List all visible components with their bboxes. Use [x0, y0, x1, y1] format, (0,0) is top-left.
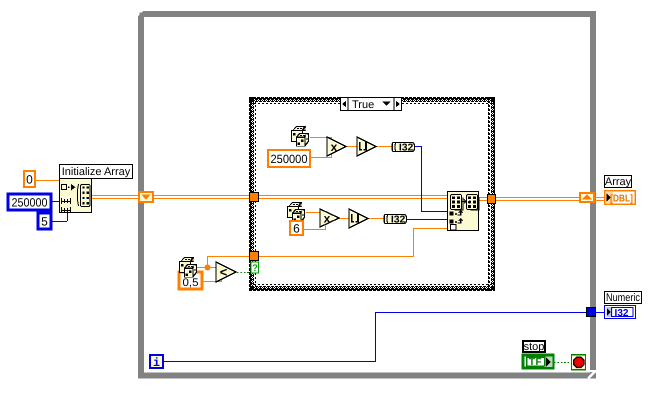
label Array [605, 176, 632, 188]
Array DBL indicator [605, 191, 636, 205]
svg-text:0: 0 [26, 172, 33, 186]
svg-text:Array: Array [605, 176, 632, 188]
svg-text:stop: stop [524, 341, 545, 353]
svg-text:6: 6 [293, 221, 300, 235]
left shift register [139, 192, 153, 202]
wire: I32 #1 to Replace Array Subset index (blue) [415, 146, 422, 147]
svg-text:I32: I32 [391, 214, 406, 225]
wire: Initialize Array out to left shift register (1D array double line) [91, 195, 139, 196]
case selector label True [341, 98, 402, 111]
wire: left shift register to case tunnel (array) [154, 195, 250, 196]
dice1 random number [291, 126, 309, 147]
wire: 0 constant to Initialize Array element input [35, 180, 61, 181]
Replace Array Subset node [448, 192, 479, 231]
wire: multiply1 to round1 [345, 146, 358, 147]
loop condition terminal (stop sign) [572, 355, 586, 370]
wire: multiply2 to round2 [338, 218, 350, 219]
case selector ? tunnel [251, 262, 259, 273]
constant 250000 (orange, in case) [268, 150, 310, 167]
wire: 5 constant to Initialize Array [51, 221, 67, 222]
wire: 6 const to multiply2 [303, 229, 326, 230]
svg-text:i: i [153, 356, 160, 370]
wire: round1 to I32 #1 [375, 146, 392, 147]
label Numeric [605, 292, 642, 304]
I32 conversion 1 [392, 142, 414, 153]
svg-text:[DBL]: [DBL] [610, 193, 633, 204]
label Initialize Array [60, 165, 133, 179]
wire: dice3 out with junction [197, 267, 217, 268]
wire: I32 #2 to Replace Array Subset (blue) [407, 219, 448, 220]
while loop corner notch bottom-right [590, 370, 597, 372]
i iteration terminal [150, 355, 163, 368]
wire: element value tunnel to Replace Array Subset [258, 256, 414, 257]
wire: dice2 to multiply2 [306, 212, 326, 213]
stop TF terminal [523, 355, 553, 368]
wire: 250000 orange const to multiply1 [310, 157, 332, 158]
wire: blue tunnel to Numeric indicator [595, 312, 605, 313]
case tunnel array out [487, 194, 496, 204]
case tunnel element in [249, 251, 259, 261]
svg-text:True: True [352, 99, 374, 111]
constant 250000 (blue, outside loop) [8, 194, 51, 210]
constant 6 [290, 221, 303, 235]
multiply2 [320, 209, 339, 227]
wire: less-than to case selector ? (dotted green) [237, 272, 251, 274]
wire: stop TF to loop condition (dotted green) [554, 362, 571, 364]
right shift register [580, 193, 594, 202]
svg-text:I32: I32 [615, 308, 629, 319]
Numeric I32 indicator [605, 306, 636, 319]
wire: 0,5 const to less-than [202, 281, 222, 282]
svg-text:0,5: 0,5 [183, 277, 199, 289]
dice3 random number [179, 257, 197, 278]
wire: dice1 to multiply1 [310, 137, 332, 138]
round to nearest 1 [357, 137, 376, 156]
svg-text:<: < [220, 264, 228, 279]
svg-text:I32: I32 [399, 142, 414, 153]
svg-text:250000: 250000 [271, 152, 308, 166]
wire: round2 to I32 #2 [367, 218, 384, 219]
I32 conversion 2 [384, 214, 406, 225]
svg-text:5: 5 [41, 214, 48, 228]
svg-text:x: x [324, 211, 331, 225]
svg-text:250000: 250000 [12, 195, 48, 209]
svg-text:x: x [331, 140, 338, 154]
svg-text:?: ? [252, 263, 258, 274]
label stop [523, 341, 545, 352]
wire: case tunnel to Replace Array Subset (array in) [258, 195, 448, 196]
dice2 random number [287, 202, 305, 223]
svg-text:TF: TF [529, 357, 542, 368]
constant 5 [38, 213, 51, 229]
while loop border [141, 14, 593, 376]
less than comparison [216, 262, 236, 282]
blue tunnel on loop border [586, 307, 596, 317]
constant 0 [24, 171, 35, 187]
wire: right case tunnel to right shift register [496, 197, 580, 198]
node Initialize Array icon [60, 179, 92, 213]
wire: Replace Array Subset out to right case tunnel [479, 197, 488, 198]
junction dot [205, 265, 211, 271]
case tunnel array in [249, 192, 259, 202]
wire: right shift register to Array indicator [595, 197, 605, 198]
wire: 250000 (blue) to Initialize Array dim size [51, 201, 60, 202]
round to nearest 2 [349, 209, 368, 228]
multiply node 1 [327, 137, 346, 156]
wire: i terminal to blue tunnel [164, 361, 376, 362]
svg-text:Initialize Array: Initialize Array [62, 166, 131, 178]
constant 0,5 [179, 272, 202, 289]
svg-text:Numeric: Numeric [606, 292, 640, 304]
